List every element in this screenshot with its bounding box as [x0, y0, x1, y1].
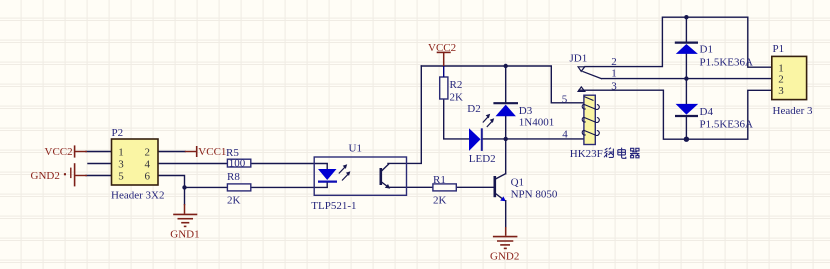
power port VCC1 [185, 146, 227, 158]
ground GND1 [170, 204, 199, 241]
wire R8 to U1 LED cathode [250, 186, 327, 188]
svg-text:VCC2: VCC2 [428, 42, 456, 54]
svg-text:GND2: GND2 [31, 170, 60, 182]
svg-text:1: 1 [118, 147, 124, 159]
svg-text:3: 3 [118, 159, 124, 171]
wire relay pin1 common to P1 pin2 [602, 78, 772, 80]
wire Q1 collector up to node [505, 139, 507, 174]
wire U1 collector up to VCC rail [388, 66, 421, 163]
svg-text:2: 2 [145, 147, 151, 159]
svg-text:1: 1 [611, 68, 617, 80]
svg-text:VCC2: VCC2 [45, 146, 73, 158]
junction node at P2 pin6 / R8 / GND1 [182, 185, 186, 189]
svg-text:TLP521-1: TLP521-1 [311, 200, 356, 212]
svg-text:Q1: Q1 [511, 176, 524, 188]
svg-text:3: 3 [778, 85, 784, 97]
svg-text:3: 3 [611, 80, 617, 92]
svg-text:GND2: GND2 [490, 251, 519, 263]
svg-text:1: 1 [778, 62, 784, 74]
junction node bottom rail / D4 [684, 137, 689, 142]
TVS diode D4 [675, 104, 753, 131]
wire P2 pin2 to VCC1 [158, 151, 185, 153]
wire R1 to Q1 base [456, 186, 494, 188]
D2 light arrows [483, 116, 493, 127]
TVS diode D1 [675, 43, 753, 69]
resistor R8 [227, 171, 251, 206]
wire D3 branch vertical [505, 66, 507, 102]
diode D3 [493, 103, 554, 128]
svg-text:2K: 2K [450, 92, 464, 104]
svg-text:JD1: JD1 [570, 52, 588, 64]
wire relay pin3 down and TVS bottom rail [579, 90, 772, 139]
wire U1 emitter to R1 [389, 186, 433, 188]
wire D2 cathode to node [483, 138, 506, 140]
relay JD1 [562, 52, 640, 160]
svg-text:1N4001: 1N4001 [519, 116, 554, 128]
svg-text:2: 2 [611, 56, 617, 68]
svg-text:5: 5 [562, 93, 568, 105]
wire VCC2 to P2 pin1 [86, 151, 112, 153]
relay coil body [584, 95, 595, 144]
power port GND2 left [31, 163, 88, 186]
svg-text:6: 6 [145, 171, 151, 183]
wire D1 D4 vertical string [685, 17, 687, 42]
wire GND2 to P2 pin5 [86, 175, 112, 177]
svg-text:D1: D1 [700, 44, 713, 56]
transistor Q1 [495, 174, 558, 228]
power port VCC2 top [428, 42, 456, 66]
resistor R5 [226, 147, 251, 170]
svg-text:R2: R2 [450, 79, 463, 91]
svg-text:R1: R1 [433, 174, 446, 186]
svg-text:4: 4 [145, 159, 151, 171]
svg-text:P1: P1 [773, 43, 785, 55]
svg-text:NPN 8050: NPN 8050 [511, 189, 558, 201]
wire P2 pin4 to R5 [158, 163, 227, 165]
U1 light arrows [339, 166, 349, 180]
svg-text:LED2: LED2 [469, 153, 496, 165]
svg-text:D3: D3 [519, 105, 533, 117]
U1 phototransistor [379, 168, 382, 185]
junction node top rail / D1 [684, 15, 688, 19]
resistor R1 [433, 174, 456, 206]
wire VCC2 top rail [421, 66, 584, 103]
optocoupler U1 [311, 143, 406, 213]
junction node VCC rail / D3 [504, 64, 508, 68]
wire relay pin2 up and TVS top rail [585, 17, 772, 67]
wire R2 bottom to D2 anode [444, 99, 469, 139]
relay blade [582, 71, 602, 79]
svg-text:2K: 2K [227, 194, 241, 206]
relay pivot marker [578, 67, 585, 72]
LED D2 [467, 103, 495, 165]
header P1 body [772, 43, 813, 117]
svg-text:Header 3X2: Header 3X2 [111, 190, 164, 202]
CJK 继电器 approx glyphs [604, 148, 639, 159]
svg-text:R8: R8 [227, 171, 240, 183]
resistor R2 [440, 66, 463, 104]
wire node to relay coil pin4 [506, 138, 584, 140]
svg-text:100: 100 [229, 158, 246, 170]
wire R8 left to node [185, 186, 227, 188]
svg-text:D2: D2 [467, 103, 480, 115]
svg-text:Header 3: Header 3 [773, 105, 814, 117]
svg-text:P1.5KE36A: P1.5KE36A [700, 119, 754, 131]
ground GND2 [490, 227, 519, 263]
junction node pin1 wire / D1 D4 [684, 76, 688, 80]
header P2 body [111, 127, 164, 201]
svg-text:4: 4 [562, 129, 568, 141]
svg-text:2K: 2K [433, 194, 447, 206]
wire stub to P2 pin3 [88, 163, 112, 165]
power port VCC2 left [45, 145, 88, 158]
wire P2 pin6 down to GND1 node [158, 176, 185, 205]
svg-text:P1.5KE36A: P1.5KE36A [700, 56, 754, 68]
wire R5 to U1 LED anode [250, 163, 327, 165]
svg-text:GND1: GND1 [170, 229, 199, 241]
junction node D2/D3/Q1/relay [504, 137, 508, 141]
svg-text:U1: U1 [349, 143, 362, 155]
U1 LED [326, 164, 328, 170]
svg-text:5: 5 [118, 171, 124, 183]
svg-text:D4: D4 [700, 106, 714, 118]
relay coil marker [578, 87, 585, 92]
svg-text:VCC1: VCC1 [198, 146, 226, 158]
svg-text:HK23F: HK23F [570, 148, 603, 160]
svg-text:2: 2 [778, 74, 784, 86]
svg-text:P2: P2 [112, 127, 124, 139]
